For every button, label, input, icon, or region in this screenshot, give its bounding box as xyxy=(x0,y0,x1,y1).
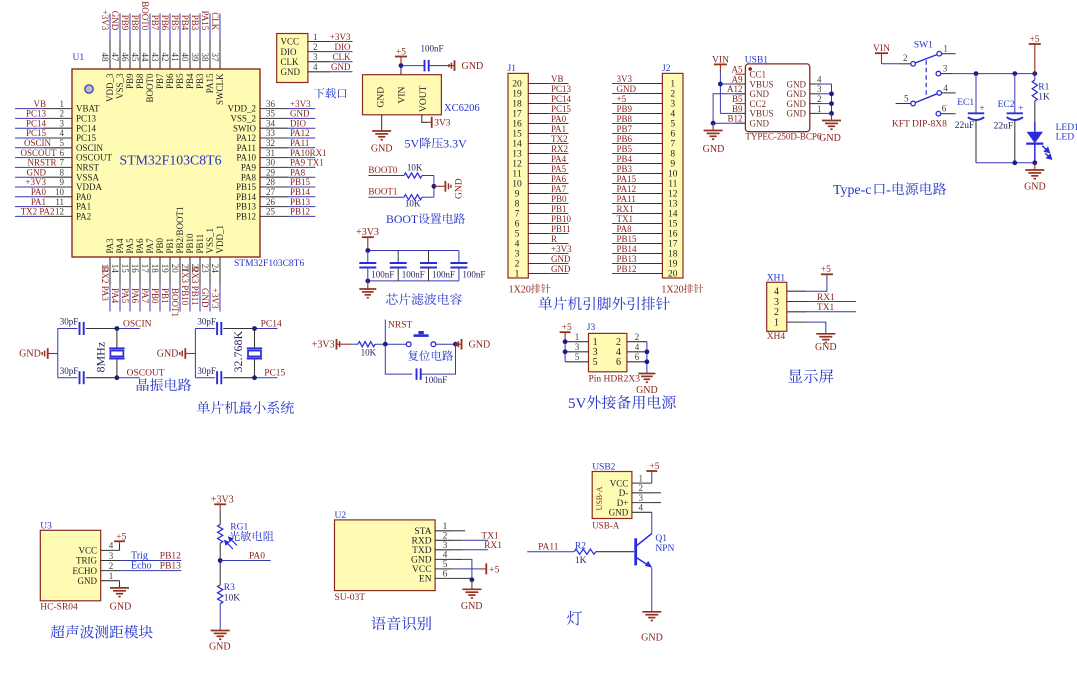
svg-text:CLK: CLK xyxy=(210,12,220,31)
wire xyxy=(471,580,473,590)
wire pin1 xyxy=(942,53,956,55)
capacitor 30pF (bottom) xyxy=(79,371,81,384)
svg-text:USB-A: USB-A xyxy=(592,521,620,531)
svg-text:VSS_1: VSS_1 xyxy=(205,228,215,254)
pin 3 GND of USB1 (right) xyxy=(787,84,832,99)
pin 7 of J1 xyxy=(515,210,569,220)
svg-text:GND: GND xyxy=(815,342,837,353)
svg-text:45: 45 xyxy=(130,53,140,63)
wire VOUT to 3V3 xyxy=(422,115,428,123)
pin 14 of J1 xyxy=(512,140,568,150)
svg-text:GND: GND xyxy=(376,87,386,108)
pins 1 and 2 of J3 xyxy=(565,332,647,348)
svg-text:100nF: 100nF xyxy=(371,269,394,279)
pin A5 CC1 of USB1 xyxy=(732,65,767,80)
svg-text:GND: GND xyxy=(787,99,807,109)
pin B9 VBUS of USB1 xyxy=(732,104,774,119)
svg-text:SWIO: SWIO xyxy=(233,123,256,133)
pin 35 VSS_2 (right) xyxy=(230,109,315,124)
svg-text:23: 23 xyxy=(200,264,210,274)
svg-text:-: - xyxy=(886,183,891,198)
caption lamp xyxy=(567,611,582,626)
svg-text:2: 2 xyxy=(817,94,822,104)
wire xyxy=(1034,101,1036,122)
capacitor C3 100nF (filter) xyxy=(420,251,455,281)
caption display xyxy=(788,369,833,383)
svg-text:2: 2 xyxy=(443,532,448,542)
svg-text:U2: U2 xyxy=(335,511,347,521)
pin 2 of J2 xyxy=(612,90,675,100)
svg-text:VCC: VCC xyxy=(412,565,432,575)
svg-text:VSS_2: VSS_2 xyxy=(230,114,256,124)
svg-text:PC15: PC15 xyxy=(551,104,572,114)
wire bottom rail xyxy=(368,280,459,282)
svg-text:PA10: PA10 xyxy=(236,153,256,163)
svg-text:EC1: EC1 xyxy=(957,98,974,108)
svg-text:47: 47 xyxy=(110,53,120,63)
wire left rail xyxy=(194,329,196,378)
svg-text:10K: 10K xyxy=(361,347,377,357)
connector J3 Pin HDR2X3 xyxy=(589,333,627,371)
svg-text:PB15: PB15 xyxy=(290,177,311,187)
pin 16 of J1 xyxy=(512,120,568,130)
svg-text:16: 16 xyxy=(130,264,140,274)
pin 1 VBAT (left) xyxy=(15,99,100,114)
svg-text:PB7: PB7 xyxy=(617,124,633,134)
svg-text:11: 11 xyxy=(668,180,677,190)
svg-text:GND: GND xyxy=(331,62,351,72)
caption voice recognition xyxy=(371,616,431,630)
svg-text:26: 26 xyxy=(266,197,276,207)
svg-text:GND: GND xyxy=(1024,181,1046,192)
svg-text:PA9: PA9 xyxy=(241,163,257,173)
svg-text:R3: R3 xyxy=(224,583,235,593)
svg-text:1X20: 1X20 xyxy=(661,284,683,295)
ground xyxy=(372,130,391,132)
svg-text:PC15: PC15 xyxy=(26,128,47,138)
pin 26 PB13 (right) xyxy=(236,197,315,212)
wire top rail xyxy=(195,328,215,330)
pin 6 EN of U2 xyxy=(419,570,454,585)
pin 37 SWCLK (top) xyxy=(210,14,225,106)
svg-text:VSS_3: VSS_3 xyxy=(115,73,125,99)
svg-text:VBUS: VBUS xyxy=(750,109,774,119)
resistor 10K (reset) xyxy=(358,342,375,347)
svg-text:VCC: VCC xyxy=(281,37,300,47)
crystal 32.768K xyxy=(247,329,262,378)
wire USB1 right GND bus xyxy=(831,84,833,113)
wire J3 left bus xyxy=(564,342,566,362)
svg-text:22uF: 22uF xyxy=(994,121,1014,131)
connector J1 1x20 header xyxy=(508,73,528,278)
svg-text:PA15: PA15 xyxy=(617,174,637,184)
svg-text:GND: GND xyxy=(110,602,132,613)
svg-text:BOOT0: BOOT0 xyxy=(368,165,397,175)
svg-text:PA11: PA11 xyxy=(237,143,256,153)
pin 4 of J1 xyxy=(515,240,569,250)
svg-text:1: 1 xyxy=(774,318,779,329)
svg-text:+3V3: +3V3 xyxy=(210,288,220,309)
svg-text:1: 1 xyxy=(109,571,114,581)
svg-text:PA1: PA1 xyxy=(551,124,566,134)
wire emitter to GND xyxy=(651,568,653,609)
connector USB1 TYPEC-250D-BCP6 xyxy=(745,64,809,132)
svg-text:3.3V: 3.3V xyxy=(443,137,467,151)
pin 29 PA8 (right) xyxy=(241,167,315,182)
svg-text:TX1: TX1 xyxy=(817,303,835,313)
svg-text:PB14: PB14 xyxy=(290,187,311,197)
wire bottom rail xyxy=(195,377,215,379)
svg-text:BOOT: BOOT xyxy=(386,212,419,226)
svg-text:3: 3 xyxy=(515,250,520,260)
svg-text:+3V3: +3V3 xyxy=(551,244,572,254)
svg-text:11: 11 xyxy=(512,170,521,180)
pin 4 GND of USB2 xyxy=(609,503,652,518)
svg-text:6: 6 xyxy=(670,130,675,140)
svg-text:PB6: PB6 xyxy=(165,73,175,89)
wire top rail xyxy=(58,328,78,330)
svg-text:4: 4 xyxy=(60,128,65,138)
svg-text:+3V3: +3V3 xyxy=(330,32,351,42)
wire xyxy=(219,543,221,585)
svg-text:GND: GND xyxy=(551,254,571,264)
svg-text:GND: GND xyxy=(819,133,841,144)
caption crystal circuit xyxy=(137,378,191,391)
pin 1 GND of USB1 (right) xyxy=(787,104,832,119)
svg-text:GND: GND xyxy=(787,79,807,89)
pin 2 D- of USB2 xyxy=(619,483,652,498)
svg-text:OSCOUT: OSCOUT xyxy=(127,369,165,379)
svg-text:13: 13 xyxy=(512,150,522,160)
ground (LED rail) xyxy=(1025,169,1044,171)
svg-text:EC2: EC2 xyxy=(998,100,1015,110)
svg-text:PB1: PB1 xyxy=(551,204,567,214)
svg-text:RX2: RX2 xyxy=(551,144,568,154)
svg-text:RX1: RX1 xyxy=(617,204,634,214)
svg-text:1K: 1K xyxy=(1038,93,1050,103)
svg-text:B5: B5 xyxy=(732,94,743,104)
capacitor C4 100nF (filter) xyxy=(450,251,485,281)
module U3 HC-SR04 xyxy=(40,530,100,601)
svg-text:4: 4 xyxy=(670,110,675,120)
caption MCU minimal system xyxy=(197,401,294,414)
svg-text:D-: D- xyxy=(619,488,629,498)
ground (U2) xyxy=(462,588,481,590)
resistor R2 1K xyxy=(574,549,596,554)
pin 14 of J2 xyxy=(612,210,678,220)
pin 17 of J2 xyxy=(612,240,678,250)
svg-text:PA2: PA2 xyxy=(76,212,91,222)
svg-text:STM32F103C8T6: STM32F103C8T6 xyxy=(120,153,222,168)
svg-text:33: 33 xyxy=(266,128,276,138)
svg-text:18: 18 xyxy=(668,250,678,260)
pin A12 GND of USB1 xyxy=(727,84,769,99)
svg-text:R1: R1 xyxy=(1038,83,1049,93)
svg-text:PB11: PB11 xyxy=(195,234,205,254)
svg-text:CLK: CLK xyxy=(281,57,300,67)
LED LED1 xyxy=(1026,132,1051,159)
pin 4 VCC of U3 xyxy=(78,541,119,556)
connector USB2 USB-A xyxy=(592,472,632,519)
svg-text:+3V3: +3V3 xyxy=(25,177,46,187)
resistor R3 10K xyxy=(218,585,223,604)
svg-text:19: 19 xyxy=(160,264,170,274)
wire TX1 xyxy=(806,311,856,313)
svg-text:2: 2 xyxy=(670,90,675,100)
pin 41 PB5 (top) xyxy=(170,14,185,90)
svg-text:5: 5 xyxy=(515,230,520,240)
svg-text:GND: GND xyxy=(461,601,483,612)
svg-text:VB: VB xyxy=(33,99,46,109)
wire GND pin of regulator xyxy=(381,115,383,131)
svg-text:7: 7 xyxy=(670,140,675,150)
pin 39 PB3 (top) xyxy=(190,14,205,90)
pin 4 GND of U2 xyxy=(411,551,454,566)
svg-text:Echo: Echo xyxy=(131,560,152,571)
svg-text:3: 3 xyxy=(60,118,65,128)
pin 1 of J1 xyxy=(515,270,569,280)
wire pin3 to +5 rail xyxy=(941,73,952,75)
svg-text:36: 36 xyxy=(266,99,276,109)
pin 12 PA2 (left) xyxy=(15,207,91,222)
svg-text:PB11: PB11 xyxy=(551,224,571,234)
svg-text:+3V3: +3V3 xyxy=(100,10,110,31)
svg-text:19: 19 xyxy=(512,90,522,100)
wire xyxy=(219,604,221,629)
svg-text:A9: A9 xyxy=(732,74,743,84)
pin 10 PA0 (left) xyxy=(15,187,92,202)
svg-text:PB12: PB12 xyxy=(617,264,637,274)
capacitor C1 100nF (filter) xyxy=(359,251,394,281)
pin 27 PB14 (right) xyxy=(236,187,315,202)
pin 25 PB12 (right) xyxy=(236,207,315,222)
svg-text:30pF: 30pF xyxy=(60,317,79,327)
svg-text:5: 5 xyxy=(575,352,580,362)
svg-text:PA5: PA5 xyxy=(551,164,567,174)
svg-text:GND: GND xyxy=(636,385,658,396)
svg-text:PA7: PA7 xyxy=(145,238,155,254)
pin 1 VCC of download port xyxy=(281,32,353,47)
svg-text:XH1: XH1 xyxy=(767,274,786,284)
svg-text:27: 27 xyxy=(266,187,276,197)
pin 28 PB15 (right) xyxy=(236,177,315,192)
capacitor 30pF (top) xyxy=(79,322,81,335)
svg-text:GND: GND xyxy=(703,144,725,155)
wire VIN to VBUS pins xyxy=(719,72,721,113)
svg-text:RX3 PB11: RX3 PB11 xyxy=(190,267,200,306)
pin 33 PA12 (right) xyxy=(236,128,315,143)
pin 42 PB6 (top) xyxy=(160,14,175,90)
pin 46 PB9 (top) xyxy=(120,14,135,90)
caption MCU pin breakout headers xyxy=(539,297,670,311)
svg-text:VCC: VCC xyxy=(78,546,97,556)
svg-text:U1: U1 xyxy=(73,53,85,63)
svg-text:10: 10 xyxy=(55,187,65,197)
ground (bar style, rotated) xyxy=(444,181,446,192)
svg-text:+5: +5 xyxy=(489,565,499,575)
svg-text:RX1: RX1 xyxy=(484,541,502,551)
svg-text:STM32F103C8T6: STM32F103C8T6 xyxy=(234,259,304,269)
resistor 10K (BOOT0) xyxy=(404,173,422,178)
pin 40 PB4 (top) xyxy=(180,14,195,90)
svg-text:BOOT0: BOOT0 xyxy=(140,1,150,30)
pin 2 RXD of U2 xyxy=(412,532,454,547)
wire D- stub xyxy=(652,492,661,494)
svg-text:DIO: DIO xyxy=(290,118,306,128)
wire xyxy=(433,176,435,198)
svg-text:24: 24 xyxy=(210,264,220,274)
pin 2 GND of USB1 (right) xyxy=(787,94,832,109)
wire RXD TX1 xyxy=(454,539,462,541)
pin 48 VDD_3 (top) xyxy=(100,14,115,103)
pin 6 OSCOUT (left) xyxy=(15,148,113,163)
wire pin4 to +5 xyxy=(806,277,827,292)
svg-text:GND: GND xyxy=(371,143,393,154)
svg-text:Q1: Q1 xyxy=(655,534,667,544)
wire VCC to +5 (USB2) xyxy=(651,475,653,484)
svg-text:+5: +5 xyxy=(617,94,627,104)
ground (U3) xyxy=(110,587,129,589)
svg-text:VDD_2: VDD_2 xyxy=(228,104,257,114)
capacitor EC2 22uF xyxy=(1007,74,1024,163)
svg-text:48: 48 xyxy=(100,53,110,63)
svg-text:20: 20 xyxy=(170,264,180,274)
pin 9 of J1 xyxy=(515,190,569,200)
pin 15 of J2 xyxy=(612,220,678,230)
svg-text:PB8: PB8 xyxy=(130,15,140,31)
pin 3 PC14 (left) xyxy=(15,118,97,133)
pin 36 VDD_2 (right) xyxy=(228,99,316,114)
svg-text:PB2/BOOT1: PB2/BOOT1 xyxy=(175,206,185,253)
svg-text:4: 4 xyxy=(109,541,114,551)
pin 2 DIO of download port xyxy=(281,42,353,57)
svg-text:A12: A12 xyxy=(727,84,743,94)
svg-text:PA2: PA2 xyxy=(39,206,54,216)
svg-text:25: 25 xyxy=(266,207,276,217)
svg-text:10: 10 xyxy=(512,180,522,190)
pin 5 of J2 xyxy=(612,120,675,130)
svg-text:OSCIN: OSCIN xyxy=(24,138,52,148)
wire xyxy=(422,196,434,198)
pin 8 of J2 xyxy=(612,150,675,160)
pin 18 PB0 (bottom) xyxy=(150,237,165,311)
svg-text:OSCIN: OSCIN xyxy=(123,319,152,329)
wire bottom rail xyxy=(58,377,78,379)
wire xyxy=(429,65,447,67)
svg-text:VDD_1: VDD_1 xyxy=(215,225,225,254)
capacitor 30pF (top) xyxy=(216,322,218,335)
svg-text:USB2: USB2 xyxy=(592,463,615,473)
svg-text:9: 9 xyxy=(515,190,520,200)
svg-text:GND: GND xyxy=(78,576,98,586)
svg-text:15: 15 xyxy=(120,264,130,274)
svg-text:18: 18 xyxy=(150,264,160,274)
svg-text:TX2: TX2 xyxy=(21,206,38,216)
svg-text:10: 10 xyxy=(668,170,678,180)
ground (bar style) xyxy=(185,353,195,355)
svg-text:EN: EN xyxy=(419,575,432,585)
svg-text:PA6: PA6 xyxy=(135,238,145,254)
svg-text:GND: GND xyxy=(110,11,120,31)
ground (USB1 left) xyxy=(704,130,723,132)
svg-text:1: 1 xyxy=(575,332,580,342)
svg-text:9: 9 xyxy=(60,177,65,187)
pin 13 PA3 (bottom) xyxy=(100,238,115,312)
svg-text:J1: J1 xyxy=(508,64,517,74)
svg-text:1: 1 xyxy=(313,32,318,42)
svg-text:30pF: 30pF xyxy=(60,366,79,376)
pin 17 of J1 xyxy=(512,110,568,120)
pin 5 VCC of U2 xyxy=(412,560,454,575)
svg-text:PA10RX1: PA10RX1 xyxy=(290,148,327,158)
wire Echo PB13 xyxy=(120,570,182,572)
svg-text:PA8: PA8 xyxy=(241,172,257,182)
wire bottom loop xyxy=(385,344,412,374)
svg-text:PB13: PB13 xyxy=(236,202,257,212)
svg-text:100nF: 100nF xyxy=(424,375,447,385)
svg-text:13: 13 xyxy=(668,200,678,210)
wire bottom rail xyxy=(976,162,1035,164)
svg-text:2: 2 xyxy=(639,483,644,493)
svg-text:RG1: RG1 xyxy=(230,522,248,532)
resistor R1 1K xyxy=(1034,74,1036,80)
net label NRST xyxy=(384,320,386,345)
svg-text:100nF: 100nF xyxy=(421,44,444,54)
svg-text:6: 6 xyxy=(60,148,65,158)
pin 38 PA15 (top) xyxy=(200,14,215,94)
wire PA11 xyxy=(527,551,574,553)
svg-text:PB5: PB5 xyxy=(170,15,180,31)
svg-text:6: 6 xyxy=(443,570,448,580)
svg-text:PB10: PB10 xyxy=(185,233,195,254)
svg-text:PA6: PA6 xyxy=(551,174,567,184)
wire J3 right bus xyxy=(646,342,648,374)
wire pin1 to GND xyxy=(806,322,826,334)
pin 3 of J1 xyxy=(515,250,569,260)
svg-text:PA12: PA12 xyxy=(617,184,637,194)
svg-text:39: 39 xyxy=(190,53,200,63)
wire PA0 xyxy=(220,560,270,562)
svg-text:2: 2 xyxy=(903,53,908,63)
svg-text:LED1: LED1 xyxy=(1056,123,1077,133)
svg-text:PA6: PA6 xyxy=(130,288,140,304)
svg-text:DIO: DIO xyxy=(335,42,351,52)
wire xyxy=(368,196,404,198)
svg-text:LED: LED xyxy=(1056,133,1075,143)
svg-text:GND: GND xyxy=(787,109,807,119)
connector XH1 display xyxy=(767,282,787,331)
svg-text:PB4: PB4 xyxy=(185,73,195,89)
ground (bar style) xyxy=(454,60,456,71)
wire xyxy=(375,343,406,345)
pin 15 PA5 (bottom) xyxy=(120,238,135,312)
power +5 (U2, bar style) xyxy=(485,563,487,574)
svg-text:1: 1 xyxy=(943,44,948,54)
svg-text:GND: GND xyxy=(290,109,310,119)
svg-text:2: 2 xyxy=(109,561,114,571)
svg-text:1: 1 xyxy=(443,522,448,532)
wire xyxy=(352,343,358,345)
svg-text:NRST: NRST xyxy=(76,163,100,173)
svg-text:GND: GND xyxy=(209,641,231,652)
svg-text:BOOT1: BOOT1 xyxy=(170,288,180,317)
svg-text:8: 8 xyxy=(60,167,65,177)
svg-text:10K: 10K xyxy=(407,162,423,172)
pin 5 of J1 xyxy=(515,230,569,240)
svg-text:+: + xyxy=(1018,104,1023,114)
label photoresistor xyxy=(229,531,274,541)
svg-text:CC2: CC2 xyxy=(750,99,767,109)
